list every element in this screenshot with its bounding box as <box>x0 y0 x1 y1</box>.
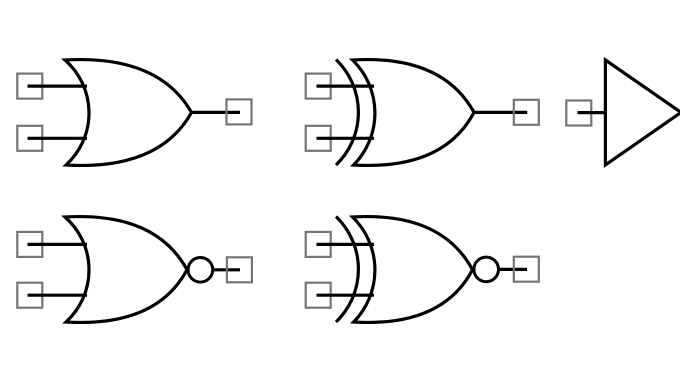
wire XNOR gate U5 output <box>498 268 527 271</box>
input pin square B4 (NOR gate U4) <box>17 283 42 308</box>
wire input B4 to NOR gate U4 <box>28 294 88 297</box>
input pin square A2 (XOR gate U2) <box>306 74 331 99</box>
wire input B2 to XOR gate U2 <box>317 137 375 140</box>
XNOR gate U5 body <box>353 217 473 323</box>
input pin square B1 (OR gate U1) <box>17 126 42 151</box>
XOR gate U2 extra input arc <box>336 60 358 166</box>
wire XOR gate U2 output <box>474 111 527 114</box>
wire input B1 to OR gate U1 <box>28 137 88 140</box>
NOR gate U4 inversion bubble <box>188 258 213 283</box>
wire input B5 to XNOR gate U5 <box>317 294 375 297</box>
XOR gate U2 body <box>353 60 474 166</box>
XNOR gate U5 extra input arc <box>336 217 358 323</box>
input pin square A5 (XNOR gate U5) <box>306 232 331 257</box>
XNOR gate U5 inversion bubble <box>474 257 499 282</box>
wire input A2 to XOR gate U2 <box>317 84 375 87</box>
wire NOR gate U4 output <box>213 268 241 271</box>
wire OR gate U1 output <box>191 111 240 114</box>
wire input A5 to XNOR gate U5 <box>317 243 375 246</box>
output pin square Y4 (NOR gate U4) <box>227 257 252 282</box>
input pin square A1 (OR gate U1) <box>17 74 42 99</box>
input pin square A3 (buffer U3) <box>566 101 591 126</box>
input pin square B5 (XNOR gate U5) <box>306 283 331 308</box>
wire input A1 to OR gate U1 <box>28 84 88 87</box>
output pin square Y1 (OR gate U1) <box>227 99 252 124</box>
output pin square Y2 (XOR gate U2) <box>514 100 539 125</box>
output pin square Y5 (XNOR gate U5) <box>514 257 539 282</box>
wire input A3 to buffer U3 <box>578 111 606 114</box>
wire input A4 to NOR gate U4 <box>28 243 88 246</box>
input pin square B2 (XOR gate U2) <box>306 126 331 151</box>
input pin square A4 (NOR gate U4) <box>17 232 42 257</box>
buffer U3 triangle body <box>605 60 680 165</box>
NOR gate U4 body <box>65 217 187 323</box>
OR gate U1 body <box>65 60 192 166</box>
